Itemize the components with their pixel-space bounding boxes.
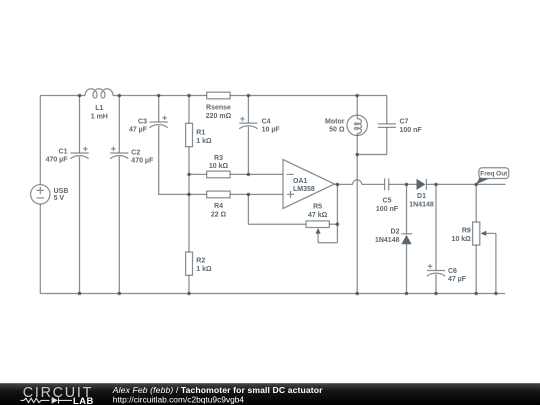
wire feedback from plus node: [248, 194, 306, 224]
logo CIRCUITLAB: [21, 385, 94, 405]
svg-text:10 kΩ: 10 kΩ: [209, 163, 229, 170]
svg-text:Motor: Motor: [325, 118, 345, 125]
svg-text:USB: USB: [54, 188, 69, 195]
wire top rail left: [40, 95, 85, 97]
wire C5 to D1: [389, 183, 417, 185]
svg-text:22 Ω: 22 Ω: [211, 211, 227, 218]
diode D1: [409, 179, 434, 209]
op-amp OA1: [283, 160, 335, 209]
svg-text:1 kΩ: 1 kΩ: [196, 266, 212, 273]
wire bottom rail: [40, 293, 505, 295]
capacitor C2: [110, 96, 154, 294]
wire R5 right to output: [336, 184, 338, 242]
wire top rail middle: [113, 95, 207, 97]
svg-text:R9: R9: [462, 228, 471, 235]
svg-text:220 mΩ: 220 mΩ: [206, 113, 232, 120]
svg-text:R5: R5: [313, 203, 322, 210]
capacitor C5: [376, 178, 399, 213]
svg-text:10 µF: 10 µF: [262, 127, 281, 134]
wire D1 to out: [426, 183, 505, 185]
svg-text:47 kΩ: 47 kΩ: [308, 212, 328, 219]
svg-text:Alex Feb (febb) / Tachomoter f: Alex Feb (febb) / Tachomoter for small D…: [112, 385, 323, 395]
svg-text:C2: C2: [131, 150, 140, 157]
wire R1 bottom to R2: [188, 174, 190, 252]
motor M: [325, 96, 367, 155]
svg-text:R3: R3: [214, 155, 223, 162]
svg-text:R2: R2: [196, 258, 205, 265]
inductor L1: [85, 89, 113, 121]
svg-text:LAB: LAB: [73, 395, 94, 405]
svg-text:http://circuitlab.com/c2bqtu9c: http://circuitlab.com/c2bqtu9c9vgb4: [113, 395, 245, 405]
svg-text:L1: L1: [95, 105, 103, 112]
svg-text:Rsense: Rsense: [206, 105, 231, 112]
svg-text:100 nF: 100 nF: [400, 127, 423, 134]
capacitor C4: [239, 96, 280, 175]
wire C7 bottom link: [357, 154, 387, 156]
svg-text:100 nF: 100 nF: [376, 206, 399, 213]
svg-text:10 kΩ: 10 kΩ: [452, 236, 472, 243]
svg-text:C5: C5: [383, 198, 392, 205]
svg-text:470 µF: 470 µF: [46, 157, 69, 164]
wire op-amp output: [335, 183, 353, 185]
svg-text:1 mH: 1 mH: [91, 113, 108, 120]
potentiometer R5: [306, 203, 337, 242]
svg-text:470 µF: 470 µF: [131, 158, 154, 165]
wire top rail right: [230, 95, 387, 97]
svg-text:50 Ω: 50 Ω: [329, 127, 345, 134]
wire hop over motor line: [353, 180, 362, 185]
resistor Rsense: [206, 92, 232, 120]
svg-text:LM358: LM358: [293, 186, 315, 193]
capacitor C1: [46, 96, 89, 294]
resistor R2: [186, 252, 212, 294]
svg-text:D1: D1: [417, 193, 426, 200]
svg-text:1 kΩ: 1 kΩ: [196, 138, 212, 145]
svg-text:5 V: 5 V: [54, 195, 65, 202]
resistor R4: [189, 191, 283, 218]
resistor R3: [189, 155, 283, 178]
svg-text:C7: C7: [400, 119, 409, 126]
svg-text:OA1: OA1: [293, 178, 308, 185]
svg-text:C6: C6: [448, 268, 457, 275]
svg-text:1N4148: 1N4148: [375, 237, 400, 244]
capacitor C3: [129, 96, 189, 195]
svg-text:R4: R4: [214, 203, 223, 210]
voltage source USB: [31, 96, 69, 294]
svg-text:C4: C4: [262, 119, 271, 126]
svg-text:1N4148: 1N4148: [409, 202, 434, 209]
resistor R1: [186, 96, 212, 175]
potentiometer R9: [452, 184, 496, 293]
capacitor C6: [427, 184, 467, 293]
svg-text:C3: C3: [138, 119, 147, 126]
wire output to C5: [362, 183, 385, 185]
svg-text:D2: D2: [391, 228, 400, 235]
wire C7 drop: [386, 96, 388, 124]
svg-text:47 µF: 47 µF: [129, 127, 148, 134]
svg-text:R1: R1: [196, 129, 205, 136]
svg-text:C1: C1: [59, 148, 68, 155]
capacitor C7: [378, 119, 423, 155]
footer banner: [0, 383, 540, 405]
wire motor down: [356, 155, 358, 294]
node Freq Out flag: [476, 168, 509, 185]
svg-text:Freq Out: Freq Out: [480, 171, 508, 178]
diode D2: [375, 184, 412, 293]
svg-text:47 µF: 47 µF: [448, 276, 467, 283]
